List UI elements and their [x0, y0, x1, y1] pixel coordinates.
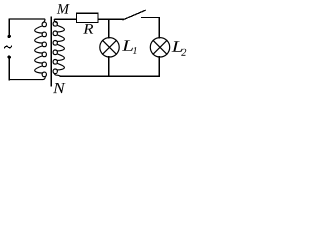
- transformer primary winding: [9, 19, 46, 80]
- wire top-left (source to primary): [9, 19, 44, 35]
- resistor label R: [83, 24, 93, 33]
- wire node M to resistor R: [55, 18, 77, 20]
- AC source ~ symbol: [5, 46, 12, 48]
- wire resistor to switch: [98, 18, 123, 20]
- transformer core: [50, 17, 52, 85]
- node label N: [53, 83, 66, 93]
- lamp label L2: [172, 41, 183, 51]
- lamp L1: [100, 38, 119, 57]
- switch blade (open): [123, 10, 145, 19]
- source terminal dot upper: [8, 35, 11, 38]
- bottom wire rail from N: [60, 75, 159, 77]
- wire junction to lamp L1: [108, 19, 110, 38]
- wire bottom-left (source to primary): [8, 59, 10, 80]
- wire lamp L1 to bottom rail: [108, 57, 110, 76]
- wire switch to top-right corner, down to lamp L2: [142, 18, 160, 38]
- source terminal dot lower: [8, 56, 11, 59]
- wire lamp L2 to bottom rail: [158, 57, 160, 76]
- transformer secondary winding: [53, 19, 159, 76]
- resistor R: [77, 13, 99, 22]
- node label M: [57, 4, 70, 13]
- lamp label L1: [122, 40, 133, 50]
- lamp L2: [150, 38, 169, 57]
